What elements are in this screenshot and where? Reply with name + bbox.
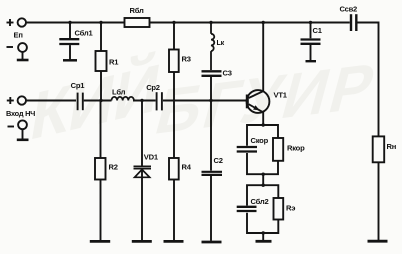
node block2 top [262, 184, 265, 187]
resistor R2 [90, 101, 110, 242]
ground emitter [256, 233, 272, 241]
resistor R4 [164, 158, 184, 241]
svg-text:Rэ: Rэ [286, 204, 295, 213]
svg-text:Rбл: Rбл [130, 6, 144, 15]
node top wire / C1 [309, 21, 312, 24]
node block2 bottom [262, 231, 265, 234]
svg-text:Сбл2: Сбл2 [251, 197, 269, 206]
capacitor C1 [301, 23, 321, 62]
wire emitter block frame 2 [247, 185, 278, 233]
svg-text:R1: R1 [109, 58, 119, 67]
node input wire / R1-R2 [99, 99, 102, 102]
terminal Еп plus [7, 18, 26, 26]
wire Lбл to Ср2 [133, 100, 156, 102]
inductor Lбл [112, 97, 134, 101]
svg-text:VT1: VT1 [274, 91, 288, 100]
svg-text:R2: R2 [109, 163, 118, 172]
node top wire / R1 [99, 21, 102, 24]
terminal Вход НЧ plus [7, 96, 26, 104]
node block1 bottom [262, 173, 265, 176]
wire top bus middle segment [150, 22, 350, 24]
capacitor Сбл1 [59, 23, 79, 61]
capacitor C3 [202, 71, 222, 170]
terminal Еп minus [7, 43, 29, 60]
watermark [26, 48, 386, 155]
wire top bus right segment to corner [358, 23, 379, 137]
svg-text:C3: C3 [223, 69, 232, 78]
capacitor Ср2 [157, 92, 162, 110]
svg-text:Еп: Еп [14, 31, 24, 40]
svg-text:C1: C1 [313, 26, 323, 35]
terminal Вход НЧ minus [8, 120, 29, 139]
capacitor Ср1 [78, 93, 83, 111]
resistor Rкор [273, 138, 283, 161]
resistor Rбл [125, 18, 150, 27]
svg-text:Lк: Lк [217, 39, 225, 47]
resistor Rн [368, 136, 388, 241]
capacitor C2 [202, 172, 223, 242]
wire right edge below Rн [378, 162, 380, 240]
svg-text:R4: R4 [182, 163, 192, 172]
svg-text:Ср1: Ср1 [71, 81, 86, 90]
node emitter / block1 top [262, 123, 265, 126]
node input wire / VD1 [140, 99, 143, 102]
svg-text:Ссв2: Ссв2 [340, 5, 358, 14]
inductor Lк [211, 23, 214, 71]
svg-text:VD1: VD1 [144, 153, 159, 162]
wire block1 to block2 [262, 174, 264, 185]
node top wire / R3 [172, 21, 175, 24]
resistor R3 [169, 23, 179, 159]
wire top bus left segment [26, 22, 125, 24]
transistor VT1 [247, 23, 270, 126]
svg-text:Ср2: Ср2 [146, 83, 160, 92]
node top wire / Сбл1 [68, 21, 71, 24]
wire input bus from + terminal to Ср1 [26, 100, 76, 102]
varicap VD1 [132, 101, 152, 242]
svg-text:R3: R3 [182, 55, 191, 64]
svg-text:C2: C2 [214, 156, 223, 165]
svg-text:Lбл: Lбл [112, 88, 126, 97]
wire Ср2 to VT1 base [163, 100, 246, 102]
svg-text:Вход НЧ: Вход НЧ [6, 109, 35, 118]
svg-text:Rн: Rн [387, 142, 397, 151]
node top wire / collector [262, 21, 265, 24]
capacitor Скор [237, 147, 257, 152]
node top wire / Lк [209, 21, 212, 24]
capacitor Сбл2 [237, 207, 257, 211]
svg-text:Rкор: Rкор [287, 144, 305, 153]
wire Ср1 to Lбл [84, 100, 112, 102]
wire emitter block frame 1 [247, 125, 278, 174]
capacitor Ссв2 [351, 14, 356, 31]
svg-text:Сбл1: Сбл1 [75, 29, 94, 38]
node input wire / C3-C2 line [209, 99, 212, 102]
resistor Rэ [274, 198, 284, 220]
resistor R1 [96, 23, 107, 101]
svg-text:Скор: Скор [251, 136, 269, 145]
